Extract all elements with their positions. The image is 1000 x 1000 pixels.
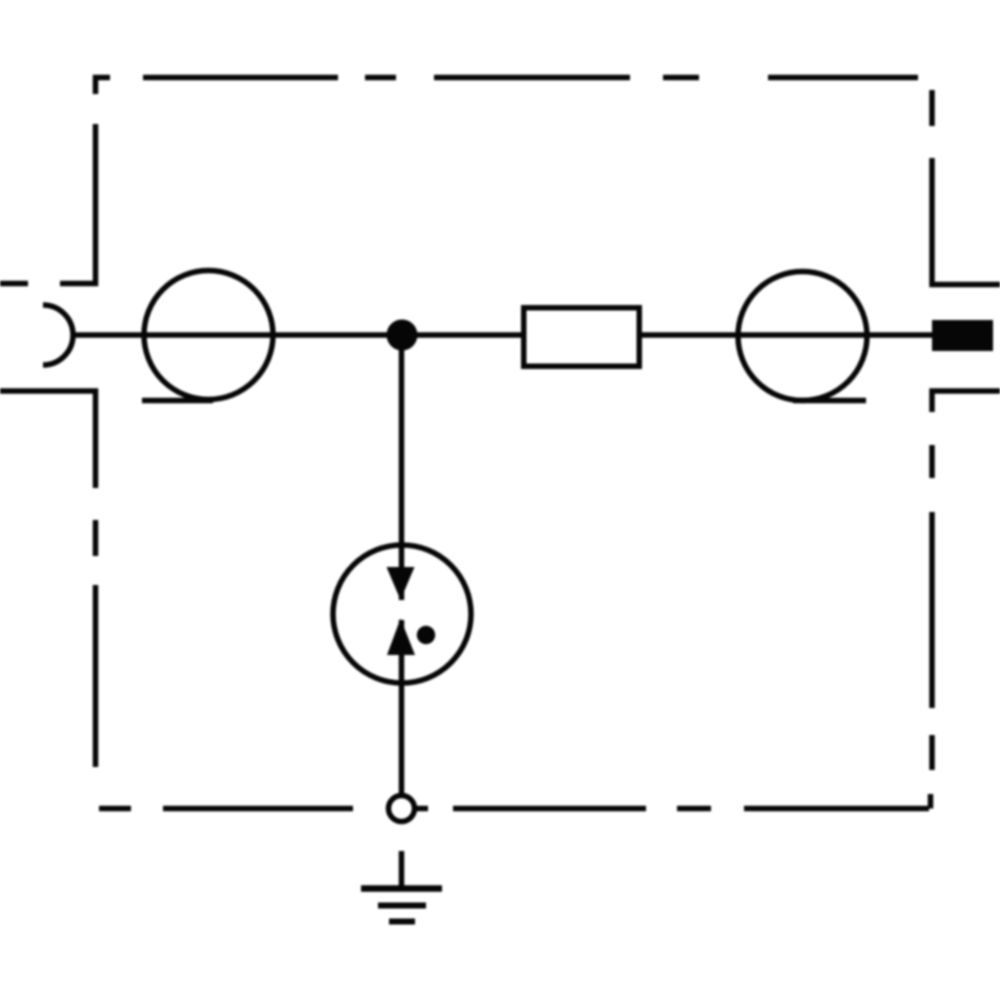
spark gap indicator dot: [417, 626, 435, 644]
earth terminal open circle on border: [389, 796, 415, 822]
wire: vertical from spark gap bottom arrow to earth terminal: [399, 620, 405, 798]
wire: horizontal main line from input arc to output terminal: [73, 332, 932, 338]
dashed enclosure border: right edge cutout top: [932, 158, 1000, 285]
dashed enclosure border: right edge cutout bottom: [932, 391, 1000, 412]
dashed enclosure border: top edge dashes: [143, 75, 918, 81]
disconnection device circle (left), with tangent tail: [144, 271, 273, 400]
spark gap down arrow: [387, 567, 415, 600]
disconnection device circle (right), with tangent tail: [738, 272, 867, 401]
output terminal (filled black rectangle at right edge): [932, 320, 993, 351]
spark gap arrester circle: [333, 545, 471, 683]
dashed enclosure border: right edge lower dashes: [929, 445, 935, 770]
spark gap up arrow: [387, 619, 415, 656]
right circle bottom tail: [793, 398, 866, 404]
ground bar 1: [361, 885, 442, 892]
dashed enclosure border: bottom edge dashes: [99, 806, 711, 812]
ground bar 3: [389, 919, 415, 925]
ground bar 2: [378, 903, 426, 909]
dashed enclosure border: left edge cutout bottom: [0, 391, 96, 488]
resistor (decoupling element, white box): [524, 308, 640, 367]
dashed enclosure border: bottom-right corner: [744, 794, 931, 809]
dashed enclosure border: left edge lower dashes: [93, 520, 99, 767]
input connector arc (left terminal): [43, 305, 73, 365]
wire: vertical from node down to spark gap top arrow: [399, 335, 405, 600]
node: junction dot: [387, 320, 418, 351]
dashed enclosure border: top-left corner: [96, 78, 111, 95]
dashed enclosure border: left edge upper dashes: [60, 124, 96, 284]
left circle bottom tail: [142, 398, 213, 404]
dashed enclosure border: left edge cutout top dash: [0, 281, 28, 287]
ground stem: [399, 851, 405, 888]
dashed enclosure border: right edge upper dashes: [929, 90, 935, 126]
